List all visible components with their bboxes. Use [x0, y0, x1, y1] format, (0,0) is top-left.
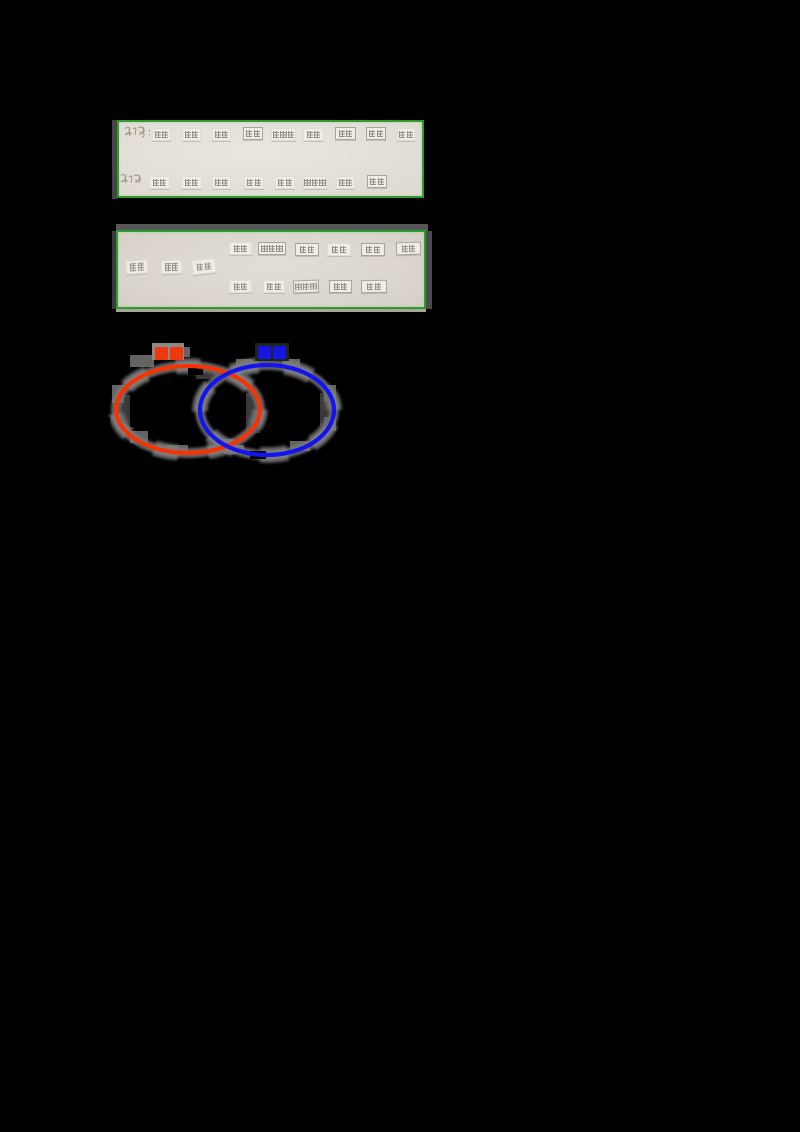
- halo breaks: [102, 350, 310, 459]
- row 1 tags: [152, 128, 171, 141]
- photo2 top row (only rope): [229, 242, 252, 255]
- photo 2 : sorted groups: [116, 224, 428, 231]
- photo2 middle-left column (both groups): [126, 259, 149, 275]
- photo2 bottom row (only shuttlecock): [229, 280, 252, 294]
- red label 跳绳: [155, 347, 183, 360]
- gray halo: [116, 365, 334, 455]
- handwriting 踢毽:: [120, 172, 146, 185]
- gray blocky patches along arcs: [112, 347, 336, 454]
- red ellipse: [116, 366, 260, 453]
- handwriting 跳绳:: [124, 125, 152, 138]
- photo 1 : jump-rope / shuttlecock name lists: [112, 120, 117, 199]
- blue ellipse: [200, 365, 334, 455]
- venn diagram: [100, 335, 350, 465]
- row 2 tags: [149, 176, 170, 189]
- blue label 踢毽: [258, 346, 286, 359]
